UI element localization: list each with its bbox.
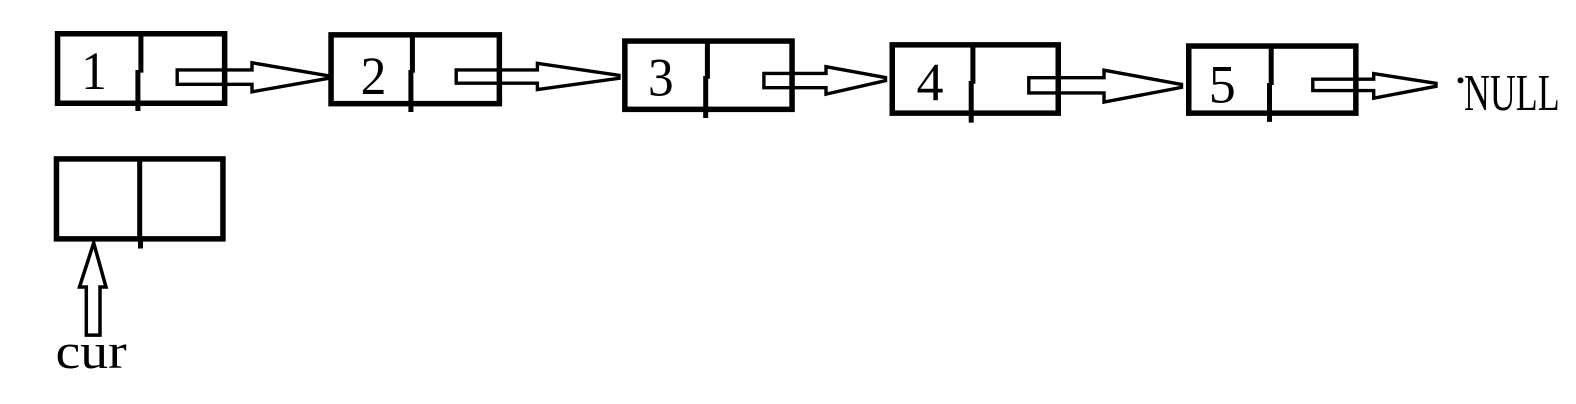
dot before NULL [1458, 77, 1464, 83]
node 2 divider [411, 34, 413, 112]
node 1 divider [138, 31, 141, 111]
wire arrow node1->node2 [177, 63, 327, 92]
wire arrow node3->node4 [764, 67, 886, 94]
node 4 box [892, 45, 1058, 113]
up arrow to cur node [80, 243, 107, 335]
wire arrow node5->NULL [1313, 74, 1436, 99]
cur node divider [137, 159, 143, 249]
svg-text:cur: cur [56, 325, 128, 380]
svg-text:NULL: NULL [1464, 63, 1560, 121]
node 5 box [1189, 46, 1356, 113]
svg-text:5: 5 [1209, 54, 1236, 114]
svg-text:3: 3 [648, 48, 674, 107]
cur node box [56, 159, 223, 239]
node 5 divider [1270, 46, 1272, 122]
svg-text:1: 1 [81, 42, 107, 101]
node 4 divider [971, 45, 973, 123]
wire arrow node2->node3 [456, 63, 619, 89]
svg-text:4: 4 [917, 52, 944, 112]
node 1 box [58, 34, 225, 104]
wire arrow node4->node5 [1029, 70, 1182, 102]
node 3 box [625, 41, 792, 109]
svg-text:2: 2 [361, 47, 387, 106]
node 2 box [331, 35, 499, 104]
node 3 divider [706, 41, 708, 118]
